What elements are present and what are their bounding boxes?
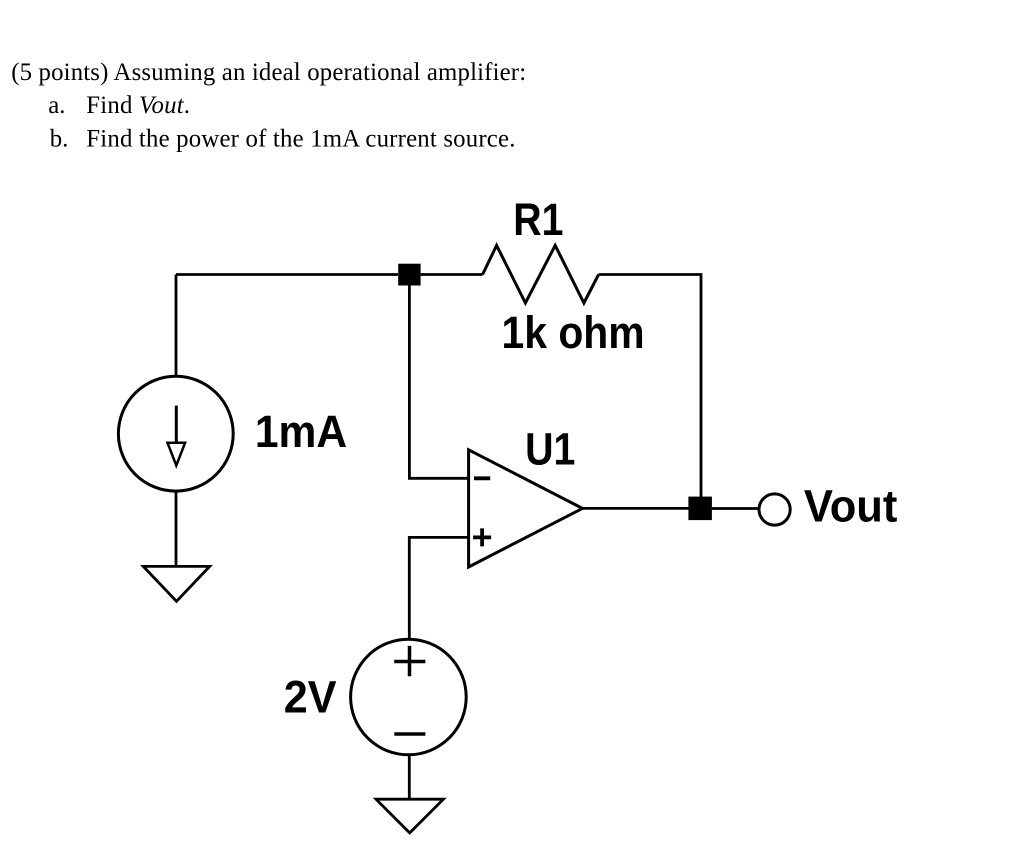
current source arrow shaft — [175, 406, 178, 443]
wire: left vertical from top wire down to 1mA source — [175, 275, 178, 377]
wire: non-inverting input to 2V source — [409, 537, 468, 639]
svg-text:2V: 2V — [284, 671, 337, 722]
svg-text:a.: a. — [48, 92, 65, 119]
svg-text:R1: R1 — [513, 194, 563, 245]
voltage source V1 circle — [351, 639, 467, 755]
svg-text:1mA: 1mA — [255, 406, 347, 457]
ground symbol under 2V source — [376, 799, 443, 833]
wire: 2V source to ground — [408, 755, 411, 799]
wire: node A down to op-amp inverting input — [409, 286, 468, 479]
svg-text:1k ohm: 1k ohm — [502, 307, 645, 358]
svg-text:b.: b. — [50, 126, 69, 153]
svg-text:Find Vout.: Find Vout. — [86, 92, 190, 119]
op-amp non-inverting input plus sign — [473, 528, 491, 546]
node A junction (filled square) — [398, 264, 420, 286]
wire: resistor R1 right lead to top-right corner — [599, 275, 701, 498]
svg-text:(5 points) Assuming an ideal o: (5 points) Assuming an ideal operational… — [11, 59, 526, 86]
svg-text:Vout: Vout — [804, 480, 898, 531]
wire: top horizontal from current source to node A — [176, 273, 398, 276]
resistor R1 zigzag body — [483, 245, 599, 303]
op-amp U1 triangle — [469, 450, 583, 567]
voltage source minus sign — [394, 732, 425, 736]
wire: node B to Vout terminal — [712, 507, 759, 510]
Vout terminal (open circle) — [759, 494, 790, 525]
svg-text:U1: U1 — [525, 423, 575, 474]
current source I1 circle — [118, 376, 233, 491]
current source arrowhead — [168, 443, 186, 466]
op-amp inverting input minus sign — [474, 476, 490, 480]
svg-text:Find the power of the 1mA curr: Find the power of the 1mA current source… — [86, 126, 515, 153]
voltage source plus sign — [394, 646, 425, 676]
node B junction (filled square) — [688, 497, 712, 520]
ground symbol under 1mA source — [143, 566, 209, 601]
wire: 1mA source to ground — [175, 491, 178, 566]
wire: op-amp output to node B — [583, 507, 690, 510]
wire: node A to resistor R1 left lead — [421, 273, 483, 276]
